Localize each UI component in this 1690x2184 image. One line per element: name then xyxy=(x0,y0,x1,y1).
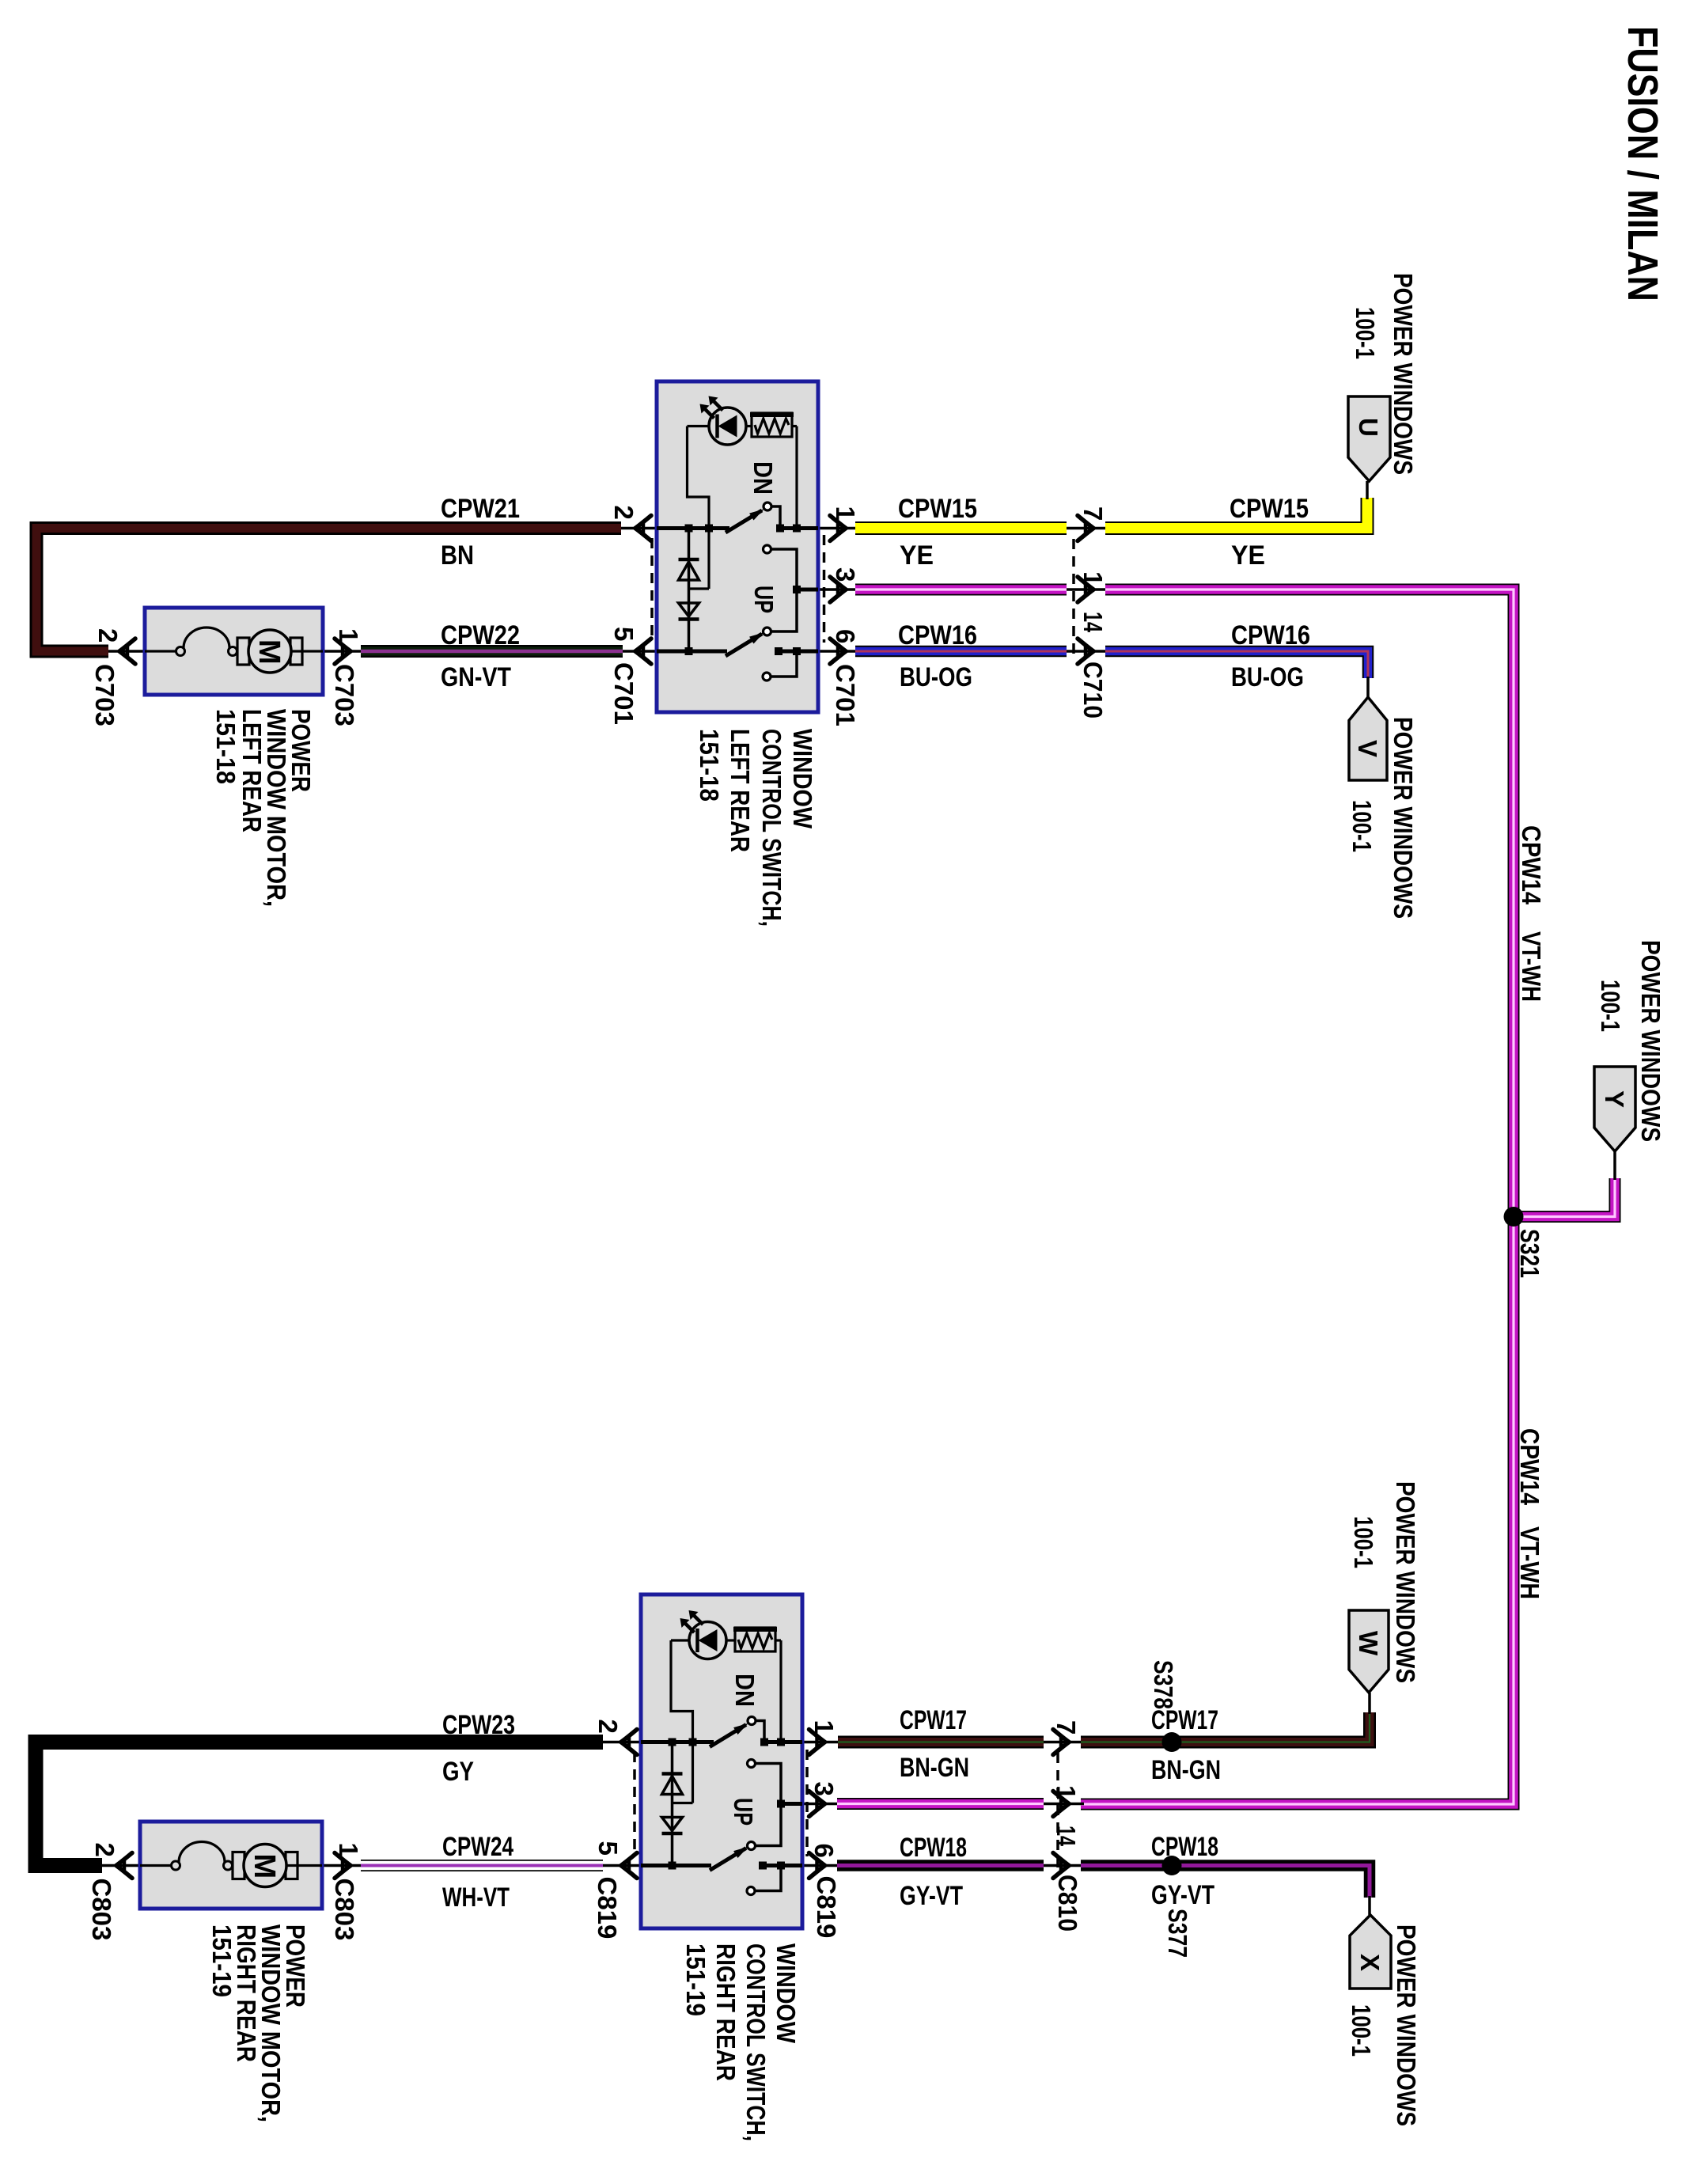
connector U xyxy=(1366,481,1369,499)
svg-text:7: 7 xyxy=(1052,1720,1081,1735)
svg-text:100-1: 100-1 xyxy=(1349,1516,1378,1568)
connector X xyxy=(1368,1896,1371,1915)
wire row A thin line stubs xyxy=(108,527,149,530)
svg-text:CONTROL SWITCH,: CONTROL SWITCH, xyxy=(741,1943,771,2141)
svg-text:VT-WH: VT-WH xyxy=(1515,1526,1544,1599)
connector Y xyxy=(1613,1151,1616,1180)
svg-text:YE: YE xyxy=(1231,540,1265,571)
svg-text:1: 1 xyxy=(831,506,860,521)
LED branch wire xyxy=(688,427,710,590)
svg-text:C710: C710 xyxy=(1078,662,1108,719)
svg-text:CPW18: CPW18 xyxy=(900,1833,967,1863)
switch UP blade xyxy=(726,634,762,656)
svg-text:C803: C803 xyxy=(87,1879,116,1941)
wire CPW14 VT-WH stub from pin 3 xyxy=(855,584,1067,596)
svg-text:CPW23: CPW23 xyxy=(442,1710,515,1740)
svg-text:UP: UP xyxy=(729,1798,758,1826)
svg-text:3: 3 xyxy=(831,567,860,582)
in-line connector C710 xyxy=(1072,539,1075,658)
svg-text:1: 1 xyxy=(334,1843,363,1857)
svg-text:UP: UP xyxy=(749,586,779,613)
svg-text:BN-GN: BN-GN xyxy=(900,1753,969,1783)
svg-text:CPW14: CPW14 xyxy=(1515,1428,1544,1506)
svg-text:BU-OG: BU-OG xyxy=(1231,662,1304,692)
svg-text:2: 2 xyxy=(90,1843,119,1857)
svg-text:2: 2 xyxy=(93,628,123,643)
svg-text:GN-VT: GN-VT xyxy=(441,662,511,692)
resistor R2 xyxy=(735,1628,775,1651)
splice S377 xyxy=(1162,1856,1182,1875)
svg-text:CPW16: CPW16 xyxy=(1231,620,1310,650)
wire CPW16 BU-OG segment 1 xyxy=(855,646,1067,658)
svg-text:C803: C803 xyxy=(330,1879,359,1941)
svg-text:M: M xyxy=(252,639,286,665)
svg-text:151-19: 151-19 xyxy=(681,1943,710,2016)
svg-text:7: 7 xyxy=(1078,506,1108,521)
svg-text:RIGHT REAR: RIGHT REAR xyxy=(711,1943,741,2081)
svg-text:LEFT REAR: LEFT REAR xyxy=(237,709,267,832)
LED D1 xyxy=(709,408,746,445)
svg-text:POWER WINDOWS: POWER WINDOWS xyxy=(1389,717,1418,919)
connector C701 right arrows and dashes xyxy=(830,516,846,529)
wire CPW16 BU-OG segment 2 with turn to V xyxy=(1105,651,1368,678)
wire CPW24 WH-VT xyxy=(361,1860,603,1871)
svg-text:FUSION / MILAN: FUSION / MILAN xyxy=(1619,26,1666,301)
svg-text:Y: Y xyxy=(1600,1090,1629,1108)
svg-text:3: 3 xyxy=(809,1782,839,1796)
connector V xyxy=(1366,677,1370,697)
switch2 internal main wires xyxy=(641,1740,714,1744)
switch2 UP blade xyxy=(710,1848,746,1871)
svg-text:BN: BN xyxy=(441,540,474,571)
wire row C thin line stubs xyxy=(108,650,149,653)
in-line connector C810 xyxy=(1056,1753,1059,1872)
connector W xyxy=(1368,1693,1371,1714)
connector arrow motor2 C803 pin 1 xyxy=(335,1853,351,1866)
svg-text:2: 2 xyxy=(609,506,638,520)
svg-text:100-1: 100-1 xyxy=(1596,980,1625,1032)
wire CPW15 YE segment 2 with turn to U xyxy=(1105,498,1367,529)
svg-text:1: 1 xyxy=(1052,1785,1081,1799)
svg-text:1: 1 xyxy=(1078,571,1108,586)
svg-text:POWER WINDOWS: POWER WINDOWS xyxy=(1392,1924,1421,2126)
svg-text:151-19: 151-19 xyxy=(207,1924,237,1997)
switch1 internal main wires xyxy=(657,526,729,530)
wire CPW14 branch to Y xyxy=(1514,1178,1615,1217)
svg-text:5: 5 xyxy=(609,627,638,641)
svg-text:M: M xyxy=(248,1854,281,1879)
svg-text:GY-VT: GY-VT xyxy=(1151,1880,1214,1910)
connector C819 right arrows xyxy=(809,1730,825,1742)
connector arrow motor2 C803 pin 2 xyxy=(116,1853,132,1866)
svg-text:POWER WINDOWS: POWER WINDOWS xyxy=(1391,1481,1420,1683)
switch2 DN lower contact xyxy=(748,1760,756,1768)
svg-text:S321: S321 xyxy=(1515,1229,1544,1278)
svg-text:CPW14: CPW14 xyxy=(1517,825,1546,905)
LED branch wire 2 xyxy=(671,1640,693,1803)
splice S378 xyxy=(1162,1732,1182,1752)
switch DN lower contact xyxy=(764,545,771,553)
svg-text:100-1: 100-1 xyxy=(1347,2004,1376,2057)
junction dots switch2 xyxy=(669,1738,676,1746)
svg-text:WH-VT: WH-VT xyxy=(442,1883,510,1913)
svg-text:C819: C819 xyxy=(593,1877,622,1939)
svg-text:151-18: 151-18 xyxy=(695,729,724,802)
svg-text:14: 14 xyxy=(1078,612,1108,632)
svg-text:5: 5 xyxy=(593,1841,623,1856)
connector C819 left arrows xyxy=(621,1730,637,1742)
connector arrow motor C703 pin 2 xyxy=(119,639,135,651)
svg-text:14: 14 xyxy=(1052,1826,1081,1846)
svg-text:CPW24: CPW24 xyxy=(442,1832,513,1862)
svg-text:1: 1 xyxy=(334,628,363,643)
svg-text:WINDOW: WINDOW xyxy=(771,1943,801,2044)
switch DN blade xyxy=(726,510,762,533)
wire CPW14 VT-WH main run xyxy=(1081,590,1514,1804)
svg-text:BU-OG: BU-OG xyxy=(900,662,972,692)
svg-text:VT-WH: VT-WH xyxy=(1517,931,1546,1002)
svg-text:CPW17: CPW17 xyxy=(1151,1705,1218,1735)
diodes D5 D6 xyxy=(671,1742,674,1866)
resistor R1 xyxy=(752,413,792,437)
wire CPW22 GN-VT xyxy=(361,645,623,658)
svg-text:W: W xyxy=(1354,1631,1383,1656)
svg-text:CPW16: CPW16 xyxy=(898,620,977,650)
svg-text:CPW17: CPW17 xyxy=(900,1705,967,1735)
wire row B thin line stubs xyxy=(817,588,856,591)
LED D4 xyxy=(689,1622,726,1659)
window control switch left rear box xyxy=(657,381,818,712)
connector C701 left arrows and dashes xyxy=(635,516,651,529)
switch2 UP lower contact xyxy=(747,1887,755,1895)
lower row thin line stubs xyxy=(100,1741,143,1744)
diodes D2 D3 xyxy=(688,529,691,652)
wire CPW18 GY-VT segment 2 turn to X xyxy=(1081,1866,1370,1898)
svg-text:CPW15: CPW15 xyxy=(898,494,977,524)
switch2 DN blade xyxy=(710,1725,746,1747)
splice S321 xyxy=(1504,1207,1524,1227)
wire CPW14 lower stub xyxy=(837,1798,1044,1810)
svg-text:S378: S378 xyxy=(1149,1660,1178,1709)
power window motor left rear box xyxy=(145,608,323,695)
svg-text:6: 6 xyxy=(809,1844,839,1858)
svg-text:CPW21: CPW21 xyxy=(441,494,520,524)
svg-text:YE: YE xyxy=(900,540,934,571)
svg-text:CONTROL SWITCH,: CONTROL SWITCH, xyxy=(757,729,786,927)
svg-text:V: V xyxy=(1353,740,1382,757)
svg-text:2: 2 xyxy=(593,1720,623,1734)
connector arrow motor C703 pin 1 xyxy=(335,639,351,651)
svg-text:POWER WINDOWS: POWER WINDOWS xyxy=(1389,273,1418,475)
svg-text:C810: C810 xyxy=(1053,1875,1082,1932)
svg-text:S377: S377 xyxy=(1163,1909,1192,1958)
wire CPW17 BN-GN segment 1 xyxy=(838,1736,1044,1749)
svg-text:151-18: 151-18 xyxy=(211,709,241,784)
switch UP lower contact xyxy=(763,673,771,681)
svg-text:1: 1 xyxy=(809,1720,839,1735)
svg-text:C701: C701 xyxy=(609,662,638,725)
svg-text:CPW15: CPW15 xyxy=(1230,494,1309,524)
svg-text:LEFT REAR: LEFT REAR xyxy=(726,729,755,852)
window control switch right rear box xyxy=(641,1594,802,1928)
wire CPW23 GY xyxy=(36,1742,603,1866)
svg-text:X: X xyxy=(1355,1954,1385,1971)
svg-text:POWER WINDOWS: POWER WINDOWS xyxy=(1636,940,1665,1142)
svg-text:DN: DN xyxy=(748,461,778,495)
junction dots switch1 xyxy=(685,525,693,533)
wire CPW21 BN xyxy=(36,529,621,652)
wire CPW17 BN-GN segment 2 turn to W xyxy=(1081,1712,1370,1742)
svg-text:DN: DN xyxy=(730,1674,760,1707)
wire CPW18 GY-VT segment 1 xyxy=(837,1860,1044,1871)
svg-text:WINDOW: WINDOW xyxy=(788,729,817,829)
svg-text:GY: GY xyxy=(442,1757,474,1787)
svg-text:BN-GN: BN-GN xyxy=(1151,1755,1221,1785)
svg-text:C701: C701 xyxy=(831,664,860,726)
svg-text:U: U xyxy=(1354,418,1383,437)
svg-text:C703: C703 xyxy=(330,664,359,726)
svg-text:C819: C819 xyxy=(812,1876,841,1939)
svg-text:C703: C703 xyxy=(90,664,119,726)
power window motor right rear box xyxy=(140,1822,322,1909)
svg-text:100-1: 100-1 xyxy=(1351,307,1380,359)
svg-text:6: 6 xyxy=(831,629,860,643)
svg-text:CPW22: CPW22 xyxy=(441,620,520,650)
wire CPW15 YE segment 1 xyxy=(855,521,1067,535)
svg-text:GY-VT: GY-VT xyxy=(900,1881,963,1911)
svg-text:100-1: 100-1 xyxy=(1347,800,1377,852)
svg-text:CPW18: CPW18 xyxy=(1151,1832,1218,1862)
